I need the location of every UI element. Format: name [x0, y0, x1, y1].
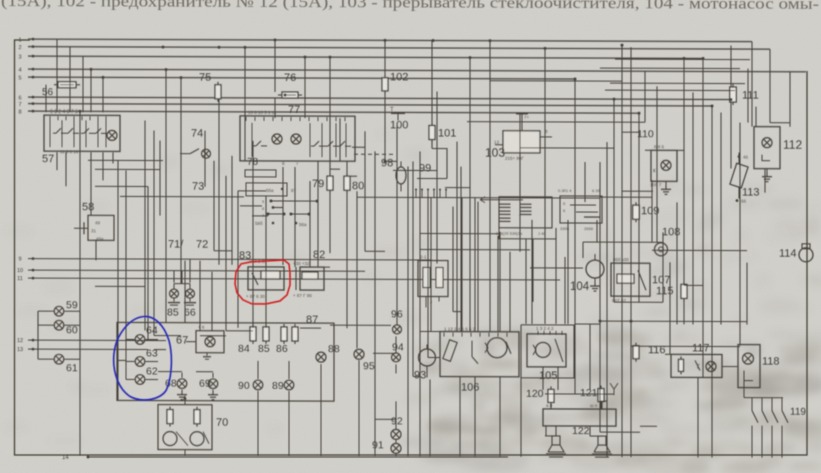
- svg-text:+ 6: + 6: [198, 325, 205, 330]
- svg-text:120: 120: [526, 388, 544, 400]
- svg-text:60: 60: [66, 324, 78, 336]
- svg-text:105: 105: [539, 370, 557, 382]
- svg-text:58б: 58б: [255, 221, 263, 226]
- svg-text:57: 57: [42, 153, 54, 165]
- svg-text:106: 106: [461, 382, 479, 394]
- svg-text:91: 91: [372, 439, 384, 451]
- svg-text:62: 62: [146, 366, 158, 378]
- svg-text:к: к: [653, 168, 656, 174]
- svg-text:9: 9: [18, 257, 21, 263]
- svg-text:89: 89: [272, 380, 284, 392]
- svg-text:102: 102: [390, 71, 408, 83]
- svg-text:118: 118: [762, 356, 780, 368]
- svg-text:82: 82: [313, 249, 325, 261]
- svg-text:11: 11: [17, 276, 23, 282]
- svg-text:115: 115: [656, 285, 674, 297]
- svg-text:6: 6: [18, 96, 21, 102]
- svg-text:88: 88: [328, 343, 340, 355]
- svg-text:92: 92: [391, 415, 403, 427]
- svg-text:+30 +32: +30 +32: [293, 261, 310, 266]
- svg-text:66: 66: [184, 307, 196, 319]
- svg-text:84: 84: [238, 343, 250, 355]
- svg-text:6 2б: 6 2б: [592, 188, 601, 193]
- svg-text:56а: 56а: [299, 222, 307, 227]
- svg-text:а п: а п: [546, 403, 553, 408]
- svg-text:ζ: ζ: [697, 364, 700, 370]
- svg-text:8: 8: [18, 110, 21, 116]
- svg-text:72: 72: [196, 239, 208, 251]
- svg-text:74: 74: [191, 128, 203, 140]
- svg-text:80: 80: [352, 180, 364, 192]
- svg-text:95: 95: [363, 360, 375, 372]
- svg-text:215+ 80Г: 215+ 80Г: [505, 156, 524, 161]
- svg-text:14: 14: [62, 455, 69, 461]
- svg-text:13: 13: [17, 347, 23, 353]
- svg-text:0.3б1 4: 0.3б1 4: [558, 188, 572, 193]
- svg-text:99: 99: [419, 162, 431, 174]
- svg-text:12: 12: [17, 338, 23, 344]
- svg-text:71/: 71/: [168, 239, 184, 251]
- svg-text:+ 87 6 30: + 87 6 30: [246, 294, 265, 299]
- svg-text:35б8: 35б8: [584, 226, 594, 231]
- svg-text:ш п: ш п: [590, 403, 598, 408]
- svg-text:58: 58: [82, 201, 94, 213]
- svg-text:1: 1: [18, 38, 21, 44]
- svg-text:46: 46: [743, 155, 749, 160]
- svg-text:13: 13: [494, 140, 500, 145]
- svg-text:121: 121: [580, 387, 598, 399]
- svg-text:117: 117: [692, 342, 710, 354]
- svg-text:98: 98: [381, 157, 393, 169]
- svg-text:100: 100: [390, 119, 408, 131]
- svg-text:69: 69: [199, 378, 211, 390]
- svg-text:10 8 10 5 1 11: 10 8 10 5 1 11: [248, 110, 277, 115]
- svg-text:86: 86: [276, 343, 288, 355]
- svg-text:114: 114: [779, 248, 797, 260]
- svg-text:4: 4: [18, 68, 21, 74]
- svg-text:85б к30: 85б к30: [613, 257, 629, 262]
- svg-text:Т: Т: [390, 107, 394, 113]
- svg-text:6 8 6: 6 8 6: [654, 144, 665, 149]
- svg-text:56: 56: [42, 87, 54, 98]
- svg-text:75: 75: [199, 72, 211, 84]
- svg-text:87: 87: [291, 188, 297, 193]
- svg-text:31: 31: [91, 228, 97, 233]
- svg-text:104: 104: [570, 281, 590, 293]
- svg-text:70: 70: [216, 417, 228, 429]
- svg-text:111: 111: [742, 90, 759, 102]
- svg-text:119: 119: [790, 407, 806, 418]
- svg-text:11 5 8 18: 11 5 8 18: [60, 149, 79, 154]
- svg-text:76: 76: [284, 72, 296, 84]
- svg-text:6 1 2 4 8 7 3: 6 1 2 4 8 7 3: [50, 109, 78, 115]
- svg-text:1 13 2 4 5 6 5 3: 1 13 2 4 5 6 5 3: [444, 327, 476, 332]
- svg-text:112: 112: [783, 138, 802, 152]
- svg-text:113: 113: [742, 187, 760, 199]
- svg-text:+ 87 Г 86: + 87 Г 86: [293, 293, 312, 298]
- svg-text:61: 61: [66, 362, 78, 374]
- svg-text:110: 110: [637, 128, 654, 140]
- svg-text:101: 101: [438, 128, 456, 140]
- svg-text:122: 122: [572, 425, 590, 437]
- svg-text:90: 90: [238, 380, 250, 392]
- svg-text:2: 2: [18, 45, 21, 51]
- svg-text:3: 3: [18, 55, 21, 61]
- svg-text:73: 73: [192, 181, 204, 193]
- svg-text:49: 49: [95, 220, 101, 225]
- svg-text:56а: 56а: [266, 188, 274, 193]
- svg-text:2-1: 2-1: [420, 254, 427, 259]
- svg-text:108: 108: [662, 226, 680, 238]
- svg-text:7+: 7+: [524, 115, 530, 120]
- svg-text:7: 7: [18, 102, 21, 108]
- svg-text:85: 85: [258, 343, 270, 355]
- svg-text:103: 103: [485, 146, 505, 160]
- svg-text:87: 87: [306, 314, 318, 326]
- svg-text:10: 10: [17, 268, 23, 274]
- svg-text:67: 67: [176, 335, 188, 347]
- svg-text:85: 85: [167, 307, 179, 319]
- svg-text:5: 5: [18, 76, 21, 82]
- svg-text:1 3 2 4 2: 1 3 2 4 2: [536, 326, 554, 331]
- svg-text:94: 94: [392, 341, 404, 353]
- svg-text:77: 77: [288, 104, 300, 116]
- svg-text:59: 59: [66, 299, 78, 311]
- svg-text:66: 66: [741, 199, 747, 204]
